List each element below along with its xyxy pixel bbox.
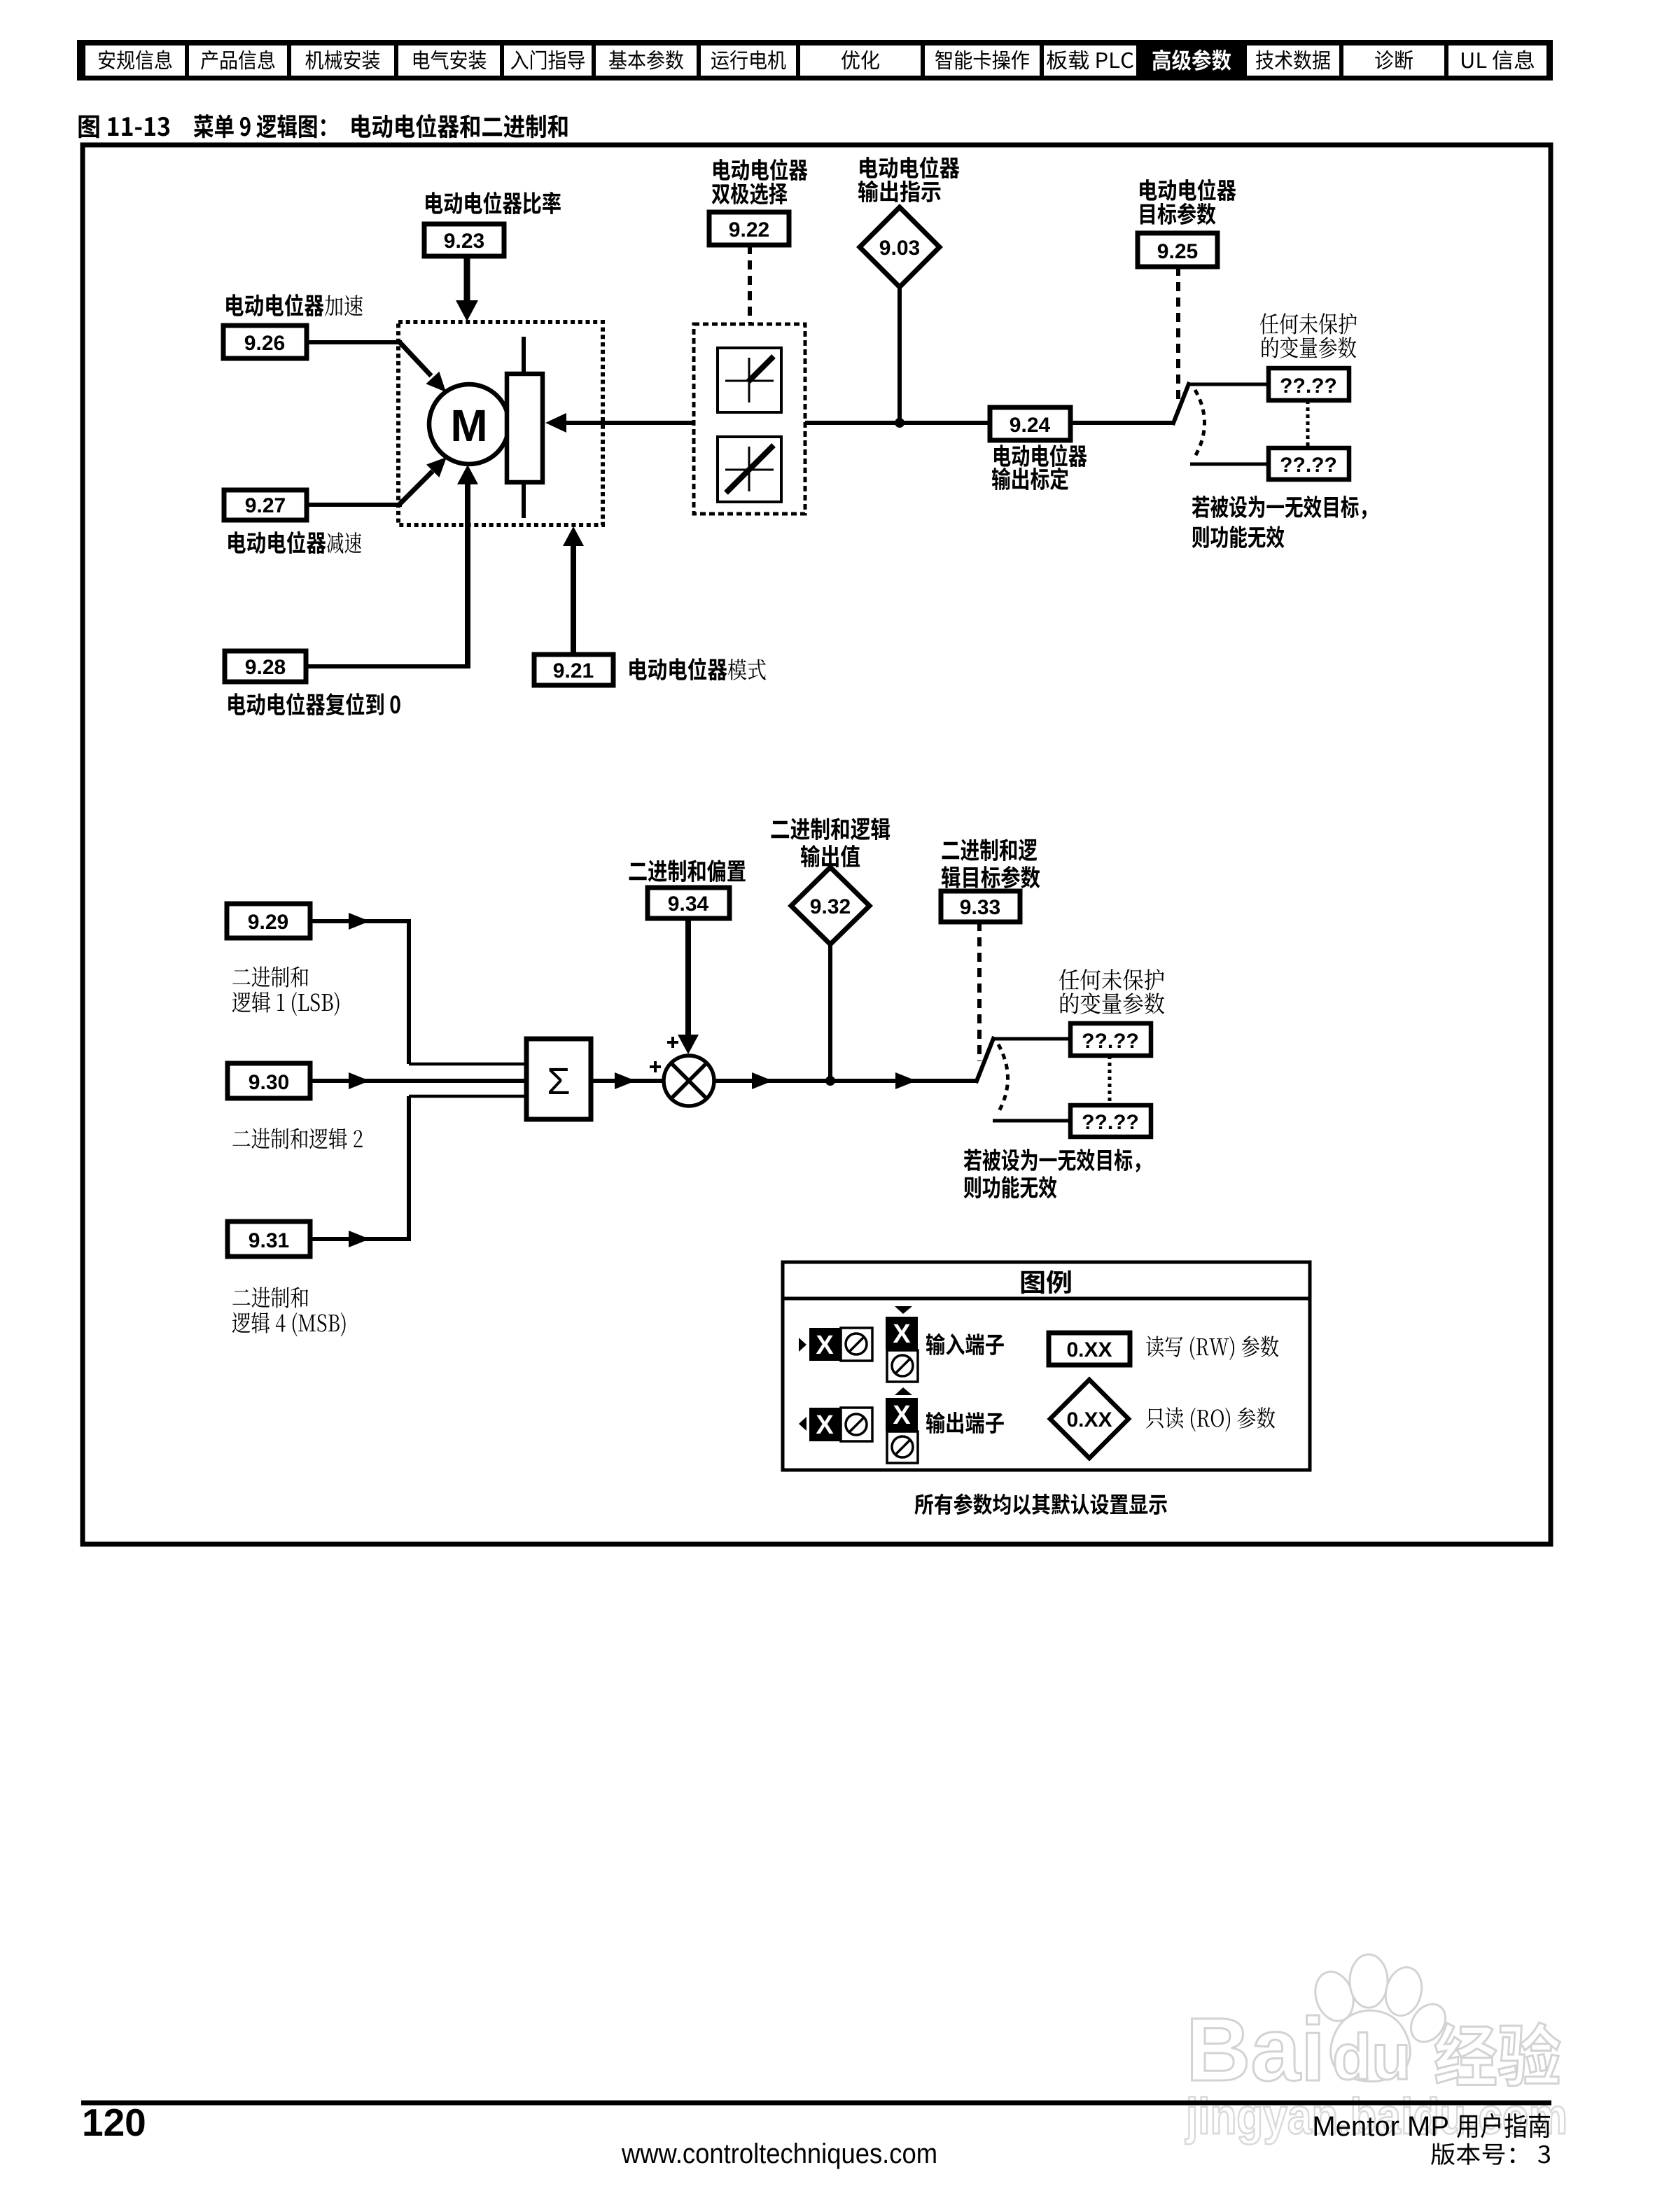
motorised pot dotted box xyxy=(398,322,603,525)
label: motor pot reset to 0 xyxy=(228,693,400,715)
plus sign left xyxy=(650,1061,661,1072)
switch arc dashed xyxy=(1195,390,1205,456)
nav tab 运行电机 xyxy=(711,50,785,70)
plus sign upper xyxy=(667,1037,678,1048)
svg-text:X: X xyxy=(893,1401,911,1430)
dotted link between ??.?? boxes xyxy=(1306,400,1310,448)
wire to bottom ??.?? xyxy=(1190,463,1269,466)
wire 9.28 up into motor xyxy=(306,664,468,668)
svg-text:9.34: 9.34 xyxy=(668,892,709,916)
potentiometer top terminal xyxy=(522,337,526,374)
svg-text:9.22: 9.22 xyxy=(729,218,769,241)
wire to bottom ??.?? xyxy=(993,1119,1070,1123)
dashed line 9.22 to mode box xyxy=(748,245,752,323)
output terminal symbol xyxy=(799,1417,806,1431)
parameter box 9.23 xyxy=(424,224,504,256)
wire 9.29 to sum xyxy=(310,919,409,923)
version 版本号: 3 xyxy=(1431,2143,1550,2165)
nav tab 产品信息 xyxy=(201,50,275,70)
label: motor pot up (accelerate) xyxy=(226,294,323,316)
label 输出端子 xyxy=(926,1412,1004,1434)
wire mode box to switch xyxy=(805,421,1174,425)
parameter box 9.27 xyxy=(224,490,307,520)
svg-text:Mentor MP: Mentor MP xyxy=(1312,2111,1449,2142)
label: binary sum output value xyxy=(771,818,890,840)
mode select dashed box xyxy=(694,324,805,514)
label 只读 (RO) 参数 xyxy=(1146,1407,1275,1431)
nav tab 高级参数 (active) xyxy=(1153,49,1231,71)
svg-text:9.23: 9.23 xyxy=(444,230,484,253)
arrow 9.21 up into pot block xyxy=(571,542,576,654)
nav tab UL 信息 xyxy=(1462,50,1534,70)
nav tab 基本参数 xyxy=(609,50,683,70)
sigma summer block xyxy=(526,1039,591,1119)
svg-text:0.XX: 0.XX xyxy=(1066,1338,1112,1361)
label 输入端子 xyxy=(926,1333,1004,1355)
diamond 9.03 (RO) xyxy=(860,207,940,287)
svg-text:9.28: 9.28 xyxy=(245,656,286,679)
nav tab 机械安装 xyxy=(305,50,379,70)
parameter box 9.29 xyxy=(227,904,310,938)
note: all parameters shown at default xyxy=(914,1493,1166,1515)
potentiometer bottom terminal xyxy=(522,482,526,518)
svg-text:9.26: 9.26 xyxy=(244,332,285,355)
nav tab 优化 xyxy=(842,50,879,70)
svg-text:9.27: 9.27 xyxy=(245,494,286,517)
svg-text:X: X xyxy=(816,1331,834,1360)
svg-text:du: du xyxy=(1332,2022,1411,2093)
wiper arrow into pot xyxy=(560,421,694,425)
label: binary sum offset xyxy=(629,860,746,882)
label: invalid destination note (top) xyxy=(1192,496,1367,519)
RO parameter diamond 0.XX xyxy=(1050,1380,1129,1458)
legend box xyxy=(783,1262,1310,1470)
svg-text:M: M xyxy=(450,400,487,451)
nav tab 安规信息 xyxy=(99,50,172,70)
arrow 9.23 into pot block xyxy=(464,256,470,302)
nav tab 电气安装 xyxy=(414,50,487,70)
RW parameter box 0.XX xyxy=(1049,1333,1130,1365)
figure title 图 11-13 菜单 9 逻辑图 xyxy=(78,115,169,138)
destination box ??.?? (bottom) xyxy=(1269,448,1349,479)
svg-text:9.30: 9.30 xyxy=(249,1071,289,1094)
diamond 9.32 (RO) xyxy=(791,867,870,944)
svg-text:??.??: ??.?? xyxy=(1280,454,1337,477)
dashed line 9.33 to switch xyxy=(977,922,982,1061)
label: any unprotected variable parameter xyxy=(1260,313,1357,335)
bipolar ramp symbol xyxy=(718,437,781,502)
parameter box 9.28 xyxy=(225,651,306,682)
nav tab 板载 PLC xyxy=(1047,50,1133,70)
wire adder to switch xyxy=(714,1079,977,1083)
label: binary sum ones (LSB) xyxy=(232,966,308,987)
switch arc dashed xyxy=(998,1044,1008,1112)
label: motor pot output scaling xyxy=(994,444,1087,467)
label: any unprotected variable parameter xyxy=(1059,969,1164,990)
svg-text:9.21: 9.21 xyxy=(553,659,594,682)
svg-text:9.24: 9.24 xyxy=(1010,414,1051,437)
svg-text:??.??: ??.?? xyxy=(1082,1030,1139,1053)
legend title 图例 xyxy=(1021,1270,1071,1294)
dotted link between ??.?? boxes xyxy=(1108,1056,1112,1105)
svg-text:9.29: 9.29 xyxy=(248,911,288,934)
nav tab bar xyxy=(77,40,1553,80)
parameter box 9.33 xyxy=(941,891,1020,922)
parameter box 9.30 xyxy=(228,1063,310,1098)
nav tab 诊断 xyxy=(1375,50,1413,70)
arrow 9.34 down into adder xyxy=(685,918,691,1041)
svg-text:9.31: 9.31 xyxy=(249,1229,289,1252)
destination switch (bottom) xyxy=(976,1037,994,1083)
label: invalid destination note (bottom) xyxy=(964,1149,1140,1172)
wire sigma to adder xyxy=(591,1079,664,1083)
destination switch (top) xyxy=(1173,382,1189,425)
baidu watermark xyxy=(1186,1954,1453,2100)
label: motor pot down (decelerate) xyxy=(228,531,326,554)
label: motor pot ratio xyxy=(426,192,561,214)
wire 9.31 to sum xyxy=(310,1237,409,1241)
label: motor pot mode xyxy=(629,658,727,680)
svg-text:0.XX: 0.XX xyxy=(1066,1408,1112,1431)
parameter box 9.34 xyxy=(648,888,729,918)
svg-text:9.03: 9.03 xyxy=(879,237,920,260)
junction node xyxy=(825,1076,835,1086)
unipolar ramp symbol xyxy=(718,348,781,412)
wire 9.27 to motor xyxy=(307,503,402,507)
nav tab 入门指导 xyxy=(511,50,585,70)
nav tab 智能卡操作 xyxy=(935,50,1029,70)
svg-text:Bai: Bai xyxy=(1186,2000,1325,2100)
label: binary sum fours (MSB) xyxy=(232,1287,308,1308)
svg-text:www.controltechniques.com: www.controltechniques.com xyxy=(621,2138,937,2169)
parameter box 9.24 xyxy=(990,407,1070,440)
parameter box 9.31 xyxy=(228,1221,310,1256)
potentiometer body xyxy=(507,374,543,482)
label: motor pot destination parameter xyxy=(1140,178,1236,200)
junction node xyxy=(895,418,905,428)
svg-text:??.??: ??.?? xyxy=(1280,374,1337,398)
wire 9.26 to motor xyxy=(307,340,402,344)
wire 9.32 to junction xyxy=(828,944,832,1081)
svg-text:X: X xyxy=(893,1319,911,1349)
diagram outer frame xyxy=(83,145,1551,1544)
wire 9.03 to junction xyxy=(898,287,902,423)
motor M circle xyxy=(429,384,509,464)
label: motor pot output indicator xyxy=(860,156,959,178)
svg-text:X: X xyxy=(816,1410,834,1440)
svg-text:120: 120 xyxy=(82,2101,146,2144)
svg-text:9.32: 9.32 xyxy=(810,895,851,918)
destination box ??.?? (top) xyxy=(1269,368,1349,400)
svg-text:??.??: ??.?? xyxy=(1082,1111,1139,1134)
wire 9.30 to sum xyxy=(310,1079,526,1083)
label 读写 (RW) 参数 xyxy=(1146,1336,1278,1360)
dashed line 9.25 to switch xyxy=(1176,267,1180,404)
destination box ??.?? (top) xyxy=(1070,1023,1151,1056)
nav tab 技术数据 xyxy=(1256,50,1330,70)
input terminal symbol xyxy=(799,1338,806,1352)
parameter box 9.26 xyxy=(223,325,307,358)
destination box ??.?? (bottom) xyxy=(1070,1105,1151,1137)
svg-text:9.25: 9.25 xyxy=(1157,240,1198,263)
footer rule xyxy=(81,2101,1551,2106)
parameter box 9.22 xyxy=(709,212,789,245)
label: binary sum destination parameter xyxy=(942,839,1037,861)
svg-text:Σ: Σ xyxy=(547,1060,570,1102)
parameter box 9.21 xyxy=(534,654,613,685)
adder circle with X xyxy=(664,1056,714,1106)
svg-text:9.33: 9.33 xyxy=(960,896,1000,919)
label: motor pot bipolar select xyxy=(713,158,808,180)
parameter box 9.25 xyxy=(1138,233,1217,267)
label: binary sum twos xyxy=(232,1128,362,1149)
